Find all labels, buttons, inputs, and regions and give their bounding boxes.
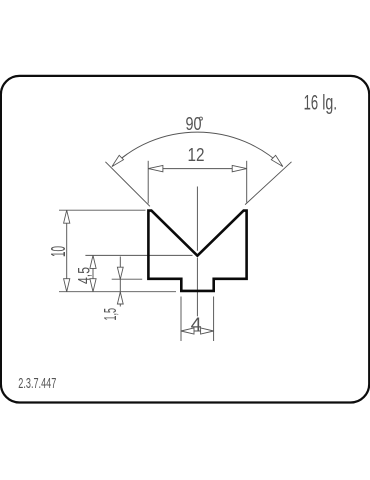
svg-text:lg.: lg. [322, 91, 337, 115]
svg-text:4,5: 4,5 [75, 267, 94, 284]
svg-text:4: 4 [191, 314, 202, 334]
svg-text:16: 16 [304, 91, 319, 115]
svg-text:1,5: 1,5 [100, 308, 120, 321]
svg-text:90: 90 [186, 114, 202, 134]
svg-text:2.3.7.447: 2.3.7.447 [18, 376, 56, 392]
svg-text:10: 10 [48, 246, 70, 257]
svg-text:12: 12 [188, 145, 205, 165]
